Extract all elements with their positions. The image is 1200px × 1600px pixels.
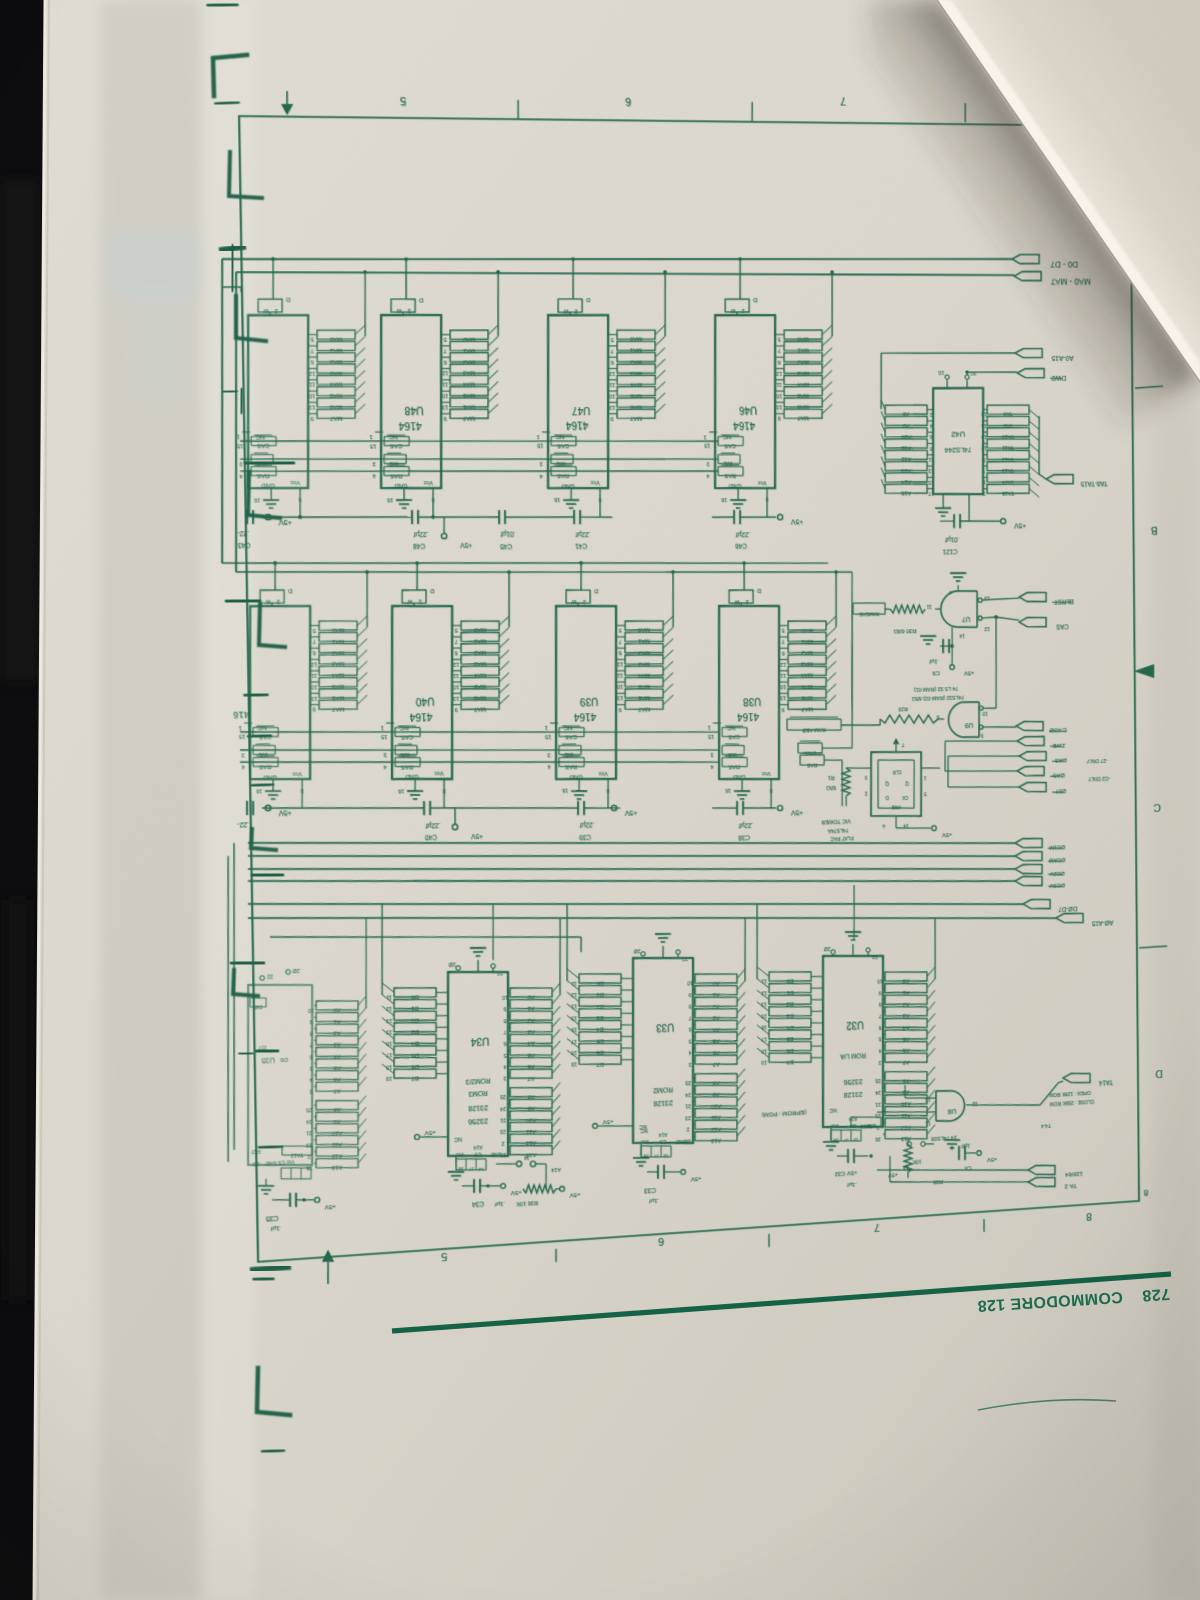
wire: far-left verticals to ROM row [223, 856, 233, 1162]
capacitor row2 left .22 [246, 801, 248, 815]
wire: U9 inputs [979, 706, 983, 710]
U38 data-in box pin 2 [729, 589, 753, 603]
U8 output to TA14 tag [966, 1100, 1040, 1109]
shadow cast by curled page [868, 0, 1200, 430]
U42 Vcc pin to +5V [968, 494, 971, 521]
capacitor C38 .22uf [736, 801, 738, 815]
capacitor C45 .01mf [498, 510, 500, 524]
wire: bus line 3 [248, 837, 1015, 903]
wire: RAM A50 net [841, 724, 880, 727]
capacitor C43 .22uf [246, 510, 248, 524]
+5V terminal row1 left [265, 514, 271, 520]
crease highlights on curled page [1010, 0, 1200, 268]
U47 data-in box pin 2 [558, 299, 582, 312]
wire: row1 +5V rail [262, 514, 412, 519]
flip-flop U10 74LS74A [870, 750, 921, 818]
U38 ground symbol [734, 790, 750, 791]
net CAS0 tag [1016, 721, 1043, 732]
jumper J6 [907, 1141, 912, 1146]
capacitor C121 .01uf [953, 514, 955, 528]
DRAM U38 4164 body [717, 605, 781, 782]
DRAM U40 4164 body [389, 605, 454, 782]
ROM U34 body [445, 969, 510, 1160]
paper edge highlight [34, 0, 45, 1600]
wire: D0-D7 bus (row 1) [222, 258, 1012, 260]
U34 data ladder D0-D7 [381, 904, 384, 995]
DRAM U4x 4164 body [245, 315, 311, 489]
DRAM U46 4164 body [713, 315, 777, 489]
wire: U38 +5V rail [712, 807, 737, 809]
+5V terminal U38 [777, 805, 782, 810]
wire: DWE boxed on WE line [798, 742, 822, 754]
+5V terminal row2 left [265, 805, 271, 811]
U46 ground symbol [730, 499, 746, 502]
bottom margin alignment arrow [322, 1249, 334, 1262]
ROM U35 partial body [245, 982, 315, 1169]
U40 address ladder MA0-MA7 [508, 572, 510, 627]
U39 ground symbol [571, 790, 587, 791]
resistor R29 68ohm [938, 718, 944, 720]
ROM U33 body [631, 955, 696, 1147]
wire: enable net to DW2 tag [965, 370, 968, 374]
U35 D0 stub [250, 997, 266, 1008]
wire: bus line 1 [248, 812, 1015, 875]
wire: left hook junction [222, 286, 241, 288]
U48 data-in box pin 2 [391, 299, 415, 312]
net BLRST tag [1019, 592, 1046, 602]
top margin alignment arrow [286, 91, 288, 104]
+5V terminal U42 [1001, 518, 1006, 523]
DRAM U47 4164 body [546, 315, 611, 489]
U40 data-in box pin 2 [402, 589, 426, 603]
curled page corner [937, 0, 1200, 382]
net label RAMCAS boxed [853, 602, 885, 615]
resistor R38 10K [904, 1145, 912, 1172]
U35 top pins [260, 975, 265, 980]
U7 inputs from tags [978, 598, 982, 602]
net TA14 tag [1063, 1072, 1090, 1084]
registration stamp marks left column [209, 4, 236, 6]
OR gate U9 [948, 702, 962, 737]
buffer U42 74LS244 body [932, 388, 984, 495]
net tags for bus group [1015, 838, 1042, 849]
wire: aux line to U33 [270, 922, 581, 951]
U38 address ladder MA0-MA7 [835, 572, 836, 627]
wire: RAS boxed on RAS line [800, 754, 824, 766]
wire: U46 +5V rail [712, 516, 734, 519]
wire: bus line 2 [248, 825, 1015, 889]
left-pointing alignment arrowhead on right border [1134, 664, 1154, 679]
resistor R36 10K [536, 1163, 546, 1164]
+5V terminal row2 mid [611, 805, 616, 810]
U47 ground symbol [563, 499, 579, 501]
NAND gate U7 top [941, 591, 959, 627]
jumper J4 [496, 1163, 516, 1165]
wire: bus feed verticals ROM row [492, 904, 494, 960]
+5V near R38 [904, 1166, 908, 1171]
U34 bottom ground cap C34 [455, 1156, 457, 1170]
wire: TA ladder merge to tag [1038, 416, 1039, 474]
net label RAM A50 boxed [787, 717, 841, 732]
wire: D0-D7 distribution bus [248, 870, 1023, 940]
wire: row2 WE bus [240, 734, 718, 766]
wire: row2 RAS bus [240, 746, 718, 779]
wire: row1 RAS bus [240, 465, 718, 478]
address ladder MA0-MA7 [366, 572, 368, 627]
faint show-through smudge [105, 232, 200, 298]
data-in box pin 2 [258, 299, 282, 312]
stray pen arc [978, 1400, 1116, 1410]
net MA0-MA7 tag [1014, 272, 1041, 281]
capacitor C39 .22uf [577, 801, 579, 815]
fold band on left of paper [100, 0, 200, 1600]
U39 data-in box pin 2 [566, 589, 590, 603]
+5V terminal U46 [777, 514, 782, 519]
U10 pin stubs [895, 744, 897, 752]
U32 address ladder A0-A13 [934, 918, 935, 979]
capacitor C9 .1uf with ground [951, 627, 953, 646]
U7 ground pin 7 above [957, 585, 959, 591]
data-in box pin 2 [260, 589, 284, 603]
top margin scale ticks [517, 100, 519, 119]
net DW2 tag [1017, 368, 1044, 377]
U35 address ladder [365, 918, 368, 1008]
U32 bottom ground cap C32 [830, 1127, 832, 1140]
capacitor C8 .1uF [944, 1139, 960, 1141]
wire: MA0-MA7 bus (row 1) [236, 272, 1014, 275]
U39 address ladder MA0-MA7 [672, 572, 673, 627]
net A0-A15 tag bottom [1056, 913, 1083, 924]
net RAS tag (-27 only) [1019, 751, 1046, 762]
wire: A0-A15 feed [881, 352, 1015, 353]
net CAS2 tag (-C2 only) [1019, 782, 1046, 793]
net D0-D7 tag [1012, 254, 1039, 263]
wire: RAMCAS vertical link [851, 614, 853, 719]
U42 input ladder A8-A15 [880, 353, 881, 409]
wire: row1 CAS bus [240, 435, 718, 446]
curled page lit edge [937, 0, 1200, 382]
U33 top pins 22 20 with ground [662, 946, 664, 958]
U32 data ladder D0-D7 [756, 904, 758, 979]
U46 data-in box pin 2 [725, 299, 749, 312]
resistor R1 68ohm vertical [846, 767, 871, 769]
AND gate U8 74LS08 [950, 1090, 965, 1121]
drawing frame border [239, 116, 1139, 1262]
right margin zone ticks [1135, 386, 1163, 388]
DRAM U39 4164 body [554, 605, 619, 782]
U42 enable pins 1G 2G [946, 380, 948, 388]
U48 ground symbol [396, 499, 412, 501]
capacitor C41 .22uf [573, 510, 575, 524]
gate U7 output resistor R30 68ohm [935, 608, 940, 610]
U42 output ladder TA8-TA15 [987, 405, 1029, 415]
bottom margin scale ticks [555, 1249, 557, 1262]
U42 ground pin and symbol [942, 494, 944, 508]
capacitor C46 .22uf [733, 510, 735, 524]
ground symbol [265, 790, 281, 791]
U33 address ladder A0-A13 [744, 918, 746, 981]
ROM U32 body [821, 953, 885, 1131]
+5V stub mid row1 [443, 517, 446, 533]
U33 bottom ground cap C33 [640, 1143, 642, 1156]
wire: row1 WE bus [240, 453, 718, 466]
wire: row2 CAS bus [240, 717, 718, 748]
wire: tag stubs [945, 738, 1017, 743]
DRAM U48 4164 body [378, 315, 443, 489]
wire: MA bus (row 2) [236, 559, 852, 585]
U34 address ladder A0-A13 [559, 918, 561, 995]
wire: bus line 4 [248, 848, 1015, 915]
U8 inputs [905, 1096, 936, 1100]
U34 top pins 22 20 with ground [477, 960, 479, 972]
net ZWE tag [1017, 736, 1044, 747]
wire: A0-A15 distribution bus [248, 882, 1056, 957]
DRAM U4x 4164 body [247, 605, 313, 781]
wire: left bus verticals joining row 2 [217, 259, 227, 563]
net TA12 tag [1028, 1176, 1055, 1188]
net 128/64 tag [1028, 1164, 1055, 1176]
capacitor C40 .22uf [423, 801, 425, 815]
net TA8-TA15 tag [1046, 474, 1073, 484]
wire: D bus (row 2) [222, 551, 828, 576]
net CAS tag [1019, 617, 1046, 627]
+5V stub mid row2 [454, 808, 456, 824]
address ladder MA0-MA7 [364, 272, 366, 336]
U46 address ladder MA0-MA7 [831, 272, 832, 336]
net A0-A15 tag [1015, 348, 1042, 357]
capacitor C48 .22uf [411, 510, 413, 524]
wire: row2 +5V rail [262, 802, 424, 814]
net RAS2 tag [1017, 766, 1044, 777]
thick separator line [392, 1274, 1171, 1331]
U33 +5V left stub [598, 1124, 633, 1128]
U40 ground symbol [407, 790, 423, 791]
U32 top pins 22 20 with ground [852, 944, 854, 956]
ground symbol [263, 499, 279, 501]
U33 data ladder D0-D7 [566, 904, 568, 981]
U48 address ladder MA0-MA7 [497, 272, 499, 336]
U10 to +5V [895, 816, 897, 828]
net D0-D7 tag bottom [1023, 899, 1050, 910]
U47 address ladder MA0-MA7 [664, 272, 666, 336]
right edge darker band [1152, 0, 1200, 1600]
U34 +5V left stub [420, 1135, 448, 1138]
